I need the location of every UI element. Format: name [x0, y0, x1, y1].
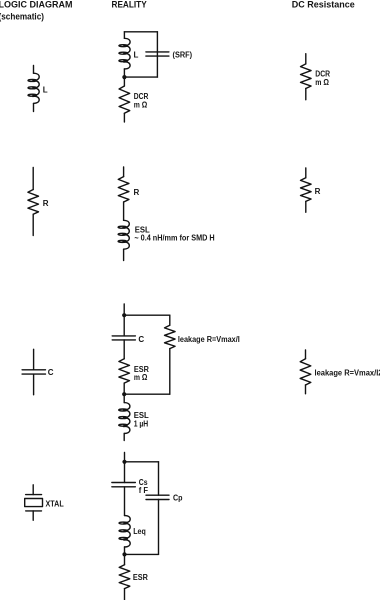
svg-text:Cp: Cp — [173, 493, 183, 502]
svg-text:DC Resistance: DC Resistance — [292, 0, 355, 10]
svg-text:m Ω: m Ω — [315, 78, 329, 87]
svg-text:leakage R=Vmax/I: leakage R=Vmax/I — [178, 335, 240, 344]
svg-text:C: C — [138, 335, 144, 344]
svg-text:R: R — [315, 187, 321, 196]
svg-text:REALITY: REALITY — [112, 0, 147, 10]
svg-text:R: R — [134, 188, 140, 197]
svg-text:R: R — [43, 199, 49, 208]
svg-text:~ 0.4 nH/mm for SMD H: ~ 0.4 nH/mm for SMD H — [134, 233, 214, 242]
svg-text:f F: f F — [139, 486, 148, 495]
svg-text:m Ω: m Ω — [134, 100, 148, 109]
svg-text:(SRF): (SRF) — [173, 51, 193, 60]
svg-text:leakage R=Vmax/I2: leakage R=Vmax/I2 — [315, 369, 380, 378]
svg-text:ESR: ESR — [133, 573, 148, 582]
svg-text:XTAL: XTAL — [46, 500, 64, 509]
svg-text:1 µH: 1 µH — [134, 419, 149, 428]
svg-text:L: L — [134, 51, 139, 60]
svg-text:Leq: Leq — [133, 527, 146, 536]
svg-text:(schematic): (schematic) — [0, 11, 44, 21]
svg-text:LOGIC DIAGRAM: LOGIC DIAGRAM — [0, 0, 73, 10]
svg-text:m Ω: m Ω — [134, 373, 148, 382]
svg-text:L: L — [43, 86, 48, 95]
svg-text:C: C — [48, 368, 54, 377]
